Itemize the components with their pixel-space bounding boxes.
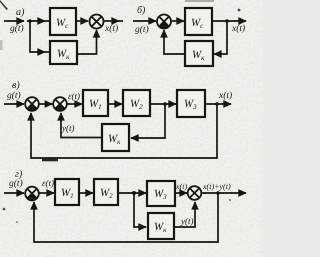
block W2 [94, 179, 118, 205]
block W1 [83, 90, 108, 116]
wire: summer2 to W1 [67, 103, 82, 105]
svg-text:y(t): y(t) [180, 216, 194, 226]
wire: W3 to summer2 [175, 192, 187, 194]
summer S4 [53, 97, 67, 111]
wire: Wc to summer [76, 20, 88, 22]
wire: output x(t)+y(t) [201, 192, 246, 194]
wire: W2 to W3 [118, 192, 146, 194]
wire: input to summer [133, 20, 156, 22]
svg-text:g(t): g(t) [135, 25, 149, 35]
svg-text:а): а) [16, 7, 25, 18]
block W2 [123, 90, 150, 116]
block Wk [185, 41, 213, 66]
block Wc [50, 8, 76, 35]
wire: W1 to W2 [108, 103, 122, 105]
label x(t) [104, 24, 118, 34]
summer S1 (circle with X) [90, 15, 104, 29]
scan specks [185, 0, 214, 2]
wire: W1 to W2 [79, 192, 93, 194]
wire: branch down into Wk [134, 193, 146, 227]
svg-text:x(t): x(t) [218, 91, 232, 101]
label x(t) [218, 91, 232, 101]
wire: feedback down into Wk [214, 21, 227, 54]
wire: Wk to summer bottom [77, 30, 97, 54]
svg-text:ε(t): ε(t) [42, 178, 54, 188]
block W1 [55, 179, 79, 205]
node F (output branch) [216, 191, 220, 195]
label v) [12, 80, 20, 91]
label b) [137, 5, 146, 16]
wire: summer to Wc [171, 20, 184, 22]
wire: output x(t) [212, 20, 246, 22]
wire: Wk to summer2 bottom, label y(t) [174, 202, 195, 227]
block Wk [50, 41, 77, 64]
wire: Wk back to summer [164, 30, 185, 54]
label g(t) [9, 179, 23, 189]
wire: summer1 to summer2 [39, 103, 53, 105]
label eps(t) [42, 178, 54, 188]
wire: outer feedback to summer1 [31, 104, 217, 158]
svg-text:x(t): x(t) [104, 24, 118, 34]
label eps(t) [68, 91, 80, 101]
wire: summer to W1 [39, 192, 54, 194]
node B (output branch) [225, 19, 229, 23]
block Wc [185, 8, 212, 35]
svg-text:x(t)+y(t): x(t)+y(t) [202, 182, 231, 191]
svg-text:б): б) [137, 5, 146, 16]
summer S2 [157, 15, 171, 29]
block Wk [148, 213, 174, 239]
node C (branch to Wk) [163, 102, 167, 106]
svg-text:ε(t): ε(t) [68, 91, 80, 101]
label a) [16, 7, 25, 18]
wire: input g to Wc [4, 20, 24, 22]
wire: input to summer 1 [4, 192, 24, 194]
summer S6 [188, 186, 202, 200]
label g(t) [135, 25, 149, 35]
wire: output x(t) [104, 20, 120, 22]
summer S3 [25, 97, 39, 111]
wire: output x(t) [205, 103, 231, 105]
label x(t) [175, 182, 187, 191]
block W3 [177, 90, 205, 117]
svg-text:g(t): g(t) [9, 179, 23, 189]
svg-text:y(t): y(t) [61, 123, 75, 133]
node E (branch to Wk) [132, 191, 136, 195]
svg-text:g(t): g(t) [7, 91, 21, 101]
label g(t) [7, 91, 21, 101]
node D (output branch) [215, 102, 219, 106]
wire: branch down into Wk [131, 104, 165, 138]
label x(t)+y(t) [202, 182, 231, 191]
wire: input to summer 1 [4, 103, 24, 105]
wire: outer feedback to summer1 [34, 193, 218, 242]
summer S5 [25, 187, 39, 201]
block W3 [147, 181, 175, 206]
svg-text:g(t): g(t) [10, 24, 24, 34]
wire: branch down [30, 21, 45, 52]
node A (branch on input) [28, 19, 32, 23]
svg-text:в): в) [12, 80, 20, 91]
svg-text:x(t): x(t) [231, 24, 245, 34]
label g(t) [10, 24, 24, 34]
block Wk [102, 124, 129, 151]
wire: Wk to summer2 bottom, label y(t) [61, 113, 102, 138]
svg-text:x(t): x(t) [175, 182, 187, 191]
wire: W2 to W3 [150, 103, 176, 105]
label g) [15, 169, 23, 180]
label x(t) [231, 24, 245, 34]
